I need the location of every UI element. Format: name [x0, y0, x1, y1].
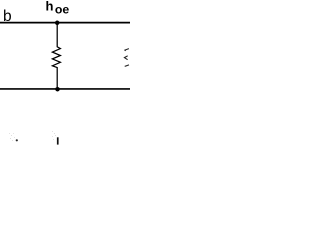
svg-text:oe: oe	[55, 3, 70, 17]
node junction dot top	[55, 21, 60, 26]
faint erased mark bottom-left	[9, 133, 18, 141]
resistor R1 (1/h_oe)	[52, 23, 60, 89]
label h_oe	[46, 0, 70, 17]
resistor R2 clipped at right edge	[124, 49, 129, 67]
faint erased mark bottom-center with wire stub	[52, 131, 59, 145]
background	[0, 0, 130, 145]
svg-text:h: h	[46, 0, 54, 13]
node junction dot bottom	[55, 87, 60, 92]
wire top horizontal (base line)	[0, 22, 130, 24]
wire bottom horizontal	[0, 88, 130, 90]
